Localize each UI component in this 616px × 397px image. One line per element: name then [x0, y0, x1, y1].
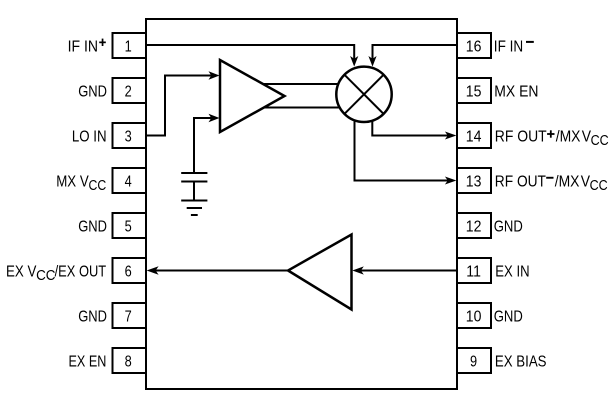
wire mixer to pin 13 (RF OUT-): [355, 121, 450, 180]
arrowhead into amp input 2: [209, 114, 220, 122]
mixer U2 (circle with X): [336, 67, 391, 122]
svg-text:3: 3: [125, 128, 132, 146]
svg-text:16: 16: [466, 37, 482, 55]
wire pin3 to amp input 1 (LO IN): [146, 76, 213, 136]
label IF IN- (pin 16): [494, 38, 534, 55]
pin 2 box: [113, 78, 147, 103]
label MX VCC (pin 4): [56, 173, 106, 193]
pin 4 box: [113, 168, 147, 193]
svg-text:/MX: /MX: [555, 172, 580, 190]
pin 7 box: [113, 303, 147, 328]
pin 10 box: [457, 303, 491, 328]
pin 12 box: [457, 213, 491, 238]
svg-text:15: 15: [466, 82, 482, 100]
capacitor C1: [181, 172, 207, 174]
svg-text:9: 9: [470, 353, 477, 371]
wire pin 11 to EX amp input (EX IN): [360, 270, 458, 272]
svg-text:4: 4: [125, 173, 132, 191]
label RF OUT+/MX VCC (pin 14): [495, 127, 609, 148]
svg-text:EX BIAS: EX BIAS: [495, 353, 547, 370]
svg-text:GND: GND: [78, 308, 107, 326]
svg-text:8: 8: [125, 353, 132, 371]
op-amp A1 (LO buffer): [220, 60, 285, 132]
svg-text:V: V: [582, 127, 591, 145]
svg-text:V: V: [581, 172, 590, 190]
pin 5 box: [113, 213, 147, 238]
wire mixer to pin 14 (RF OUT+): [372, 122, 449, 136]
svg-text:5: 5: [125, 218, 132, 236]
svg-text:GND: GND: [494, 218, 523, 236]
wire pin16 to mixer (IF IN-): [373, 45, 458, 61]
pin 8 box: [113, 348, 147, 373]
pin 15 box: [457, 78, 491, 103]
svg-text:GND: GND: [78, 83, 107, 101]
pin 16 box: [457, 33, 491, 58]
pin 9 box: [457, 348, 491, 373]
svg-text:MX V: MX V: [56, 173, 89, 190]
svg-text:CC: CC: [591, 132, 609, 148]
pin 11 box: [457, 258, 491, 283]
label IF IN+ (pin 1): [68, 37, 106, 55]
wire cap to amp input 2: [194, 118, 213, 173]
svg-text:RF OUT: RF OUT: [495, 172, 546, 190]
pin 14 box: [457, 123, 491, 148]
label RF OUT-/MX VCC (pin 13): [495, 172, 608, 193]
svg-text:IF IN: IF IN: [494, 38, 523, 55]
arrowhead into EX amp: [352, 266, 364, 274]
arrowhead into amp input 1: [209, 71, 220, 79]
arrowhead into mixer top left: [350, 56, 358, 67]
svg-text:CC: CC: [36, 266, 55, 283]
IC package outline U1: [146, 19, 457, 389]
wire amp output line 2 to mixer: [264, 107, 341, 109]
svg-text:MX EN: MX EN: [494, 82, 538, 100]
arrowhead into mixer top right: [368, 56, 376, 67]
svg-text:RF OUT: RF OUT: [495, 127, 547, 145]
svg-text:13: 13: [466, 172, 482, 190]
svg-text:12: 12: [466, 217, 482, 235]
svg-text:EX EN: EX EN: [69, 353, 107, 371]
svg-text:GND: GND: [494, 308, 523, 326]
pin 13 box: [457, 168, 491, 193]
wire pin1 to mixer (IF IN+): [146, 45, 354, 61]
svg-text:2: 2: [125, 83, 132, 101]
svg-text:EX IN: EX IN: [495, 263, 529, 280]
svg-text:7: 7: [125, 308, 132, 326]
svg-text:CC: CC: [590, 177, 608, 193]
svg-text:6: 6: [125, 263, 132, 281]
pin 1 box: [113, 33, 147, 58]
svg-text:GND: GND: [78, 218, 107, 236]
svg-text:CC: CC: [89, 177, 107, 193]
svg-text:14: 14: [466, 127, 482, 145]
svg-text:/MX: /MX: [556, 127, 581, 145]
svg-text:/EX OUT: /EX OUT: [55, 263, 107, 281]
ground: [181, 200, 207, 202]
wire amp output line 1 to mixer: [263, 83, 339, 85]
svg-text:10: 10: [466, 307, 482, 325]
svg-text:11: 11: [466, 262, 481, 280]
pin 3 box: [113, 123, 147, 148]
svg-text:LO IN: LO IN: [72, 128, 107, 145]
wire cap to ground: [193, 182, 195, 201]
svg-text:IF IN: IF IN: [68, 37, 98, 55]
label EX VCC/EX OUT (pin 6): [6, 263, 106, 283]
svg-text:EX V: EX V: [6, 263, 37, 280]
op-amp A2 (EX amplifier, pointing left): [288, 235, 352, 310]
wire EX amp output to pin 6: [155, 270, 289, 272]
svg-text:1: 1: [125, 38, 132, 56]
arrowhead into pin 13: [445, 177, 457, 185]
pin 6 box: [113, 258, 147, 283]
arrowhead into pin 6: [147, 266, 159, 275]
arrowhead into pin 14: [445, 132, 457, 140]
